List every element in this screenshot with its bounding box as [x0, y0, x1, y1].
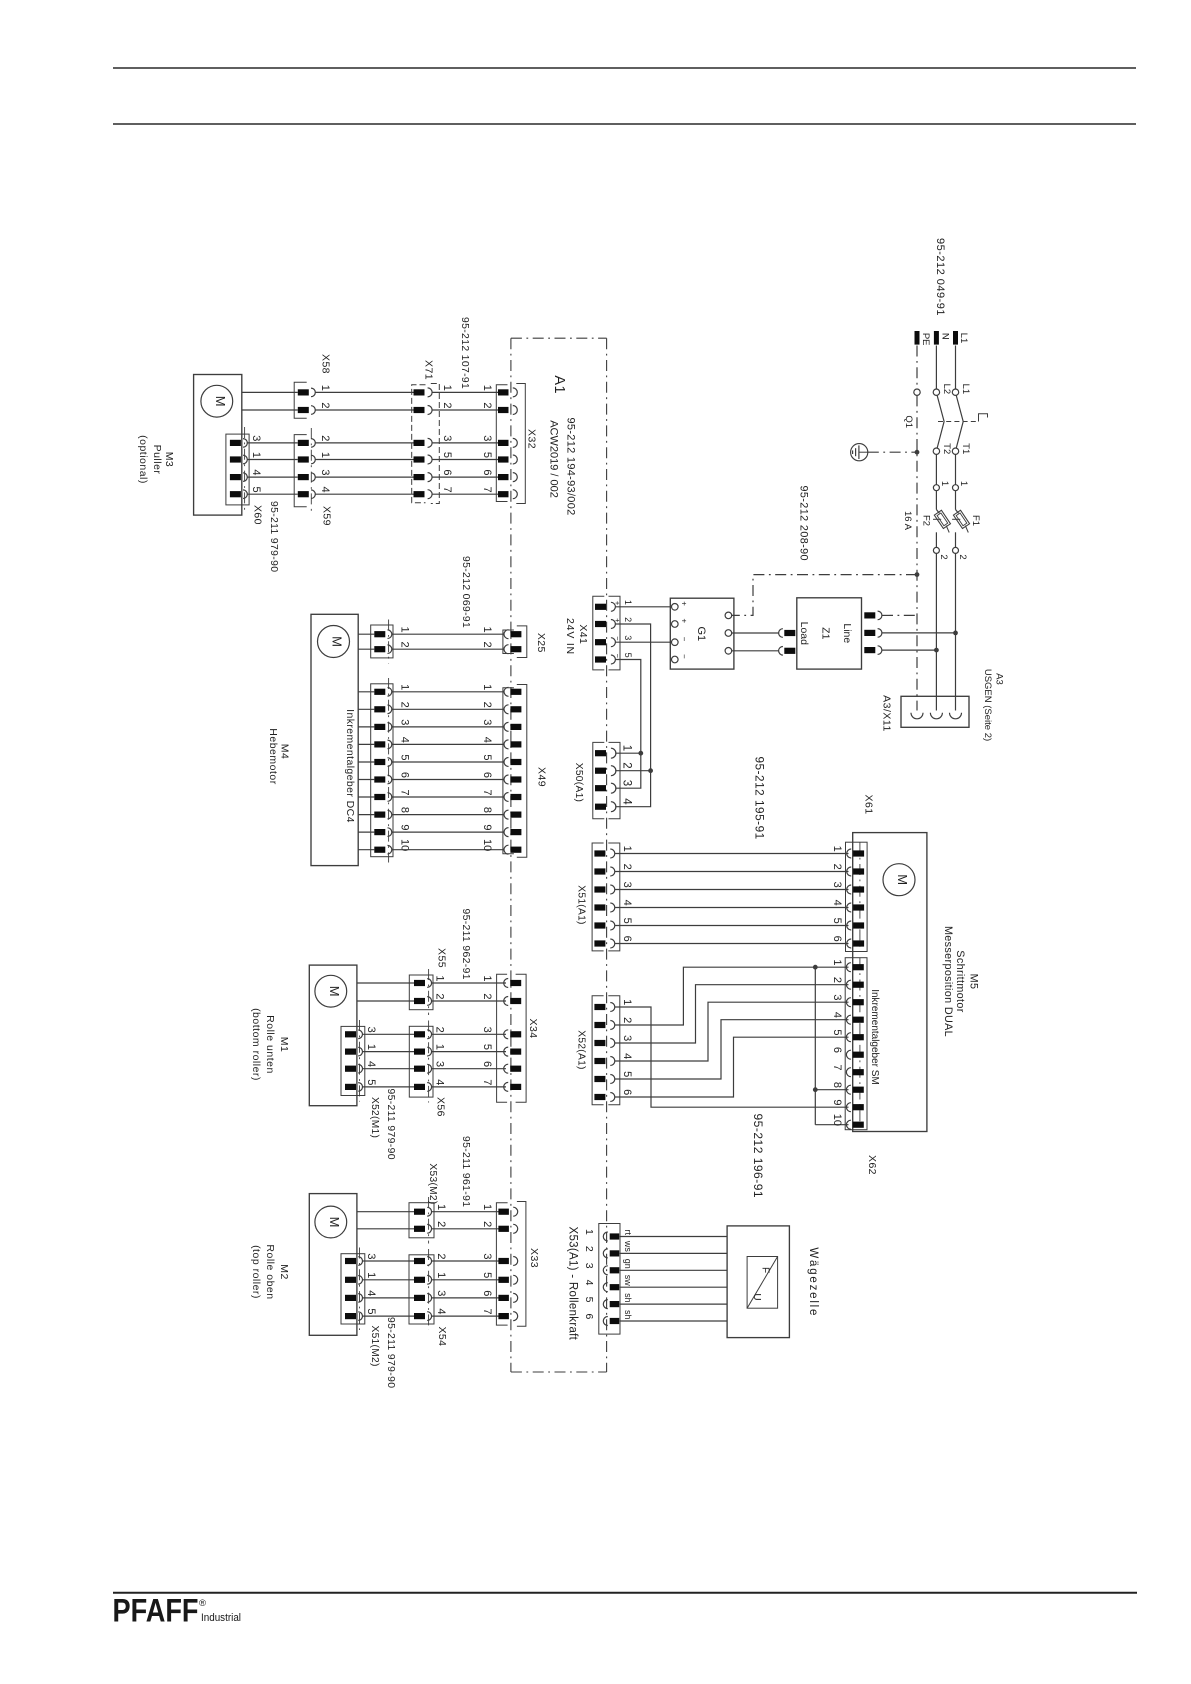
- svg-text:M: M: [895, 874, 910, 885]
- switch Q1 contact T1: [952, 448, 958, 454]
- wire ground to PE (dash-dot): [868, 451, 917, 453]
- svg-text:M: M: [330, 636, 345, 647]
- connector X53(A1): [599, 1224, 620, 1335]
- svg-text:M: M: [213, 396, 228, 407]
- motor M3 housing: [194, 375, 242, 516]
- svg-text:4: 4: [621, 1053, 633, 1059]
- svg-text:Puller: Puller: [151, 445, 163, 475]
- svg-text:4: 4: [365, 1290, 377, 1296]
- wire G1 to Z1 load bottom: [732, 650, 779, 652]
- connector X34: [497, 974, 508, 1102]
- svg-text:ACW2019 / 002: ACW2019 / 002: [548, 420, 560, 498]
- svg-text:2: 2: [319, 435, 331, 441]
- svg-text:M3: M3: [163, 452, 175, 468]
- wire X52.5 to X62.4: [615, 1020, 849, 1079]
- wire M3 lead 1: [242, 391, 298, 393]
- motor M3: [201, 385, 233, 417]
- svg-text:7: 7: [831, 1064, 843, 1070]
- svg-text:95-212 194-93/002: 95-212 194-93/002: [565, 418, 577, 516]
- svg-text:1: 1: [250, 452, 262, 458]
- svg-text:L1: L1: [958, 333, 969, 344]
- svg-text:PE: PE: [920, 333, 931, 346]
- switch Q1 linkage (dashed): [938, 421, 979, 423]
- svg-text:4: 4: [831, 1012, 843, 1018]
- svg-text:1: 1: [481, 1204, 493, 1210]
- svg-text:X50(A1): X50(A1): [573, 763, 584, 802]
- svg-text:X51(M2): X51(M2): [369, 1326, 380, 1367]
- svg-text:5: 5: [481, 754, 493, 760]
- svg-text:95-212 069-91: 95-212 069-91: [460, 556, 471, 628]
- svg-text:95-211 979-90: 95-211 979-90: [385, 1317, 396, 1388]
- svg-text:Wägezelle: Wägezelle: [807, 1247, 819, 1317]
- svg-text:X49: X49: [535, 767, 547, 787]
- svg-text:9: 9: [399, 824, 411, 830]
- Z1 line-side pin: [864, 647, 875, 653]
- svg-text:sw: sw: [623, 1275, 633, 1287]
- svg-text:2: 2: [435, 1253, 447, 1259]
- svg-text:95-212 208-90: 95-212 208-90: [798, 486, 810, 561]
- svg-text:2: 2: [583, 1246, 595, 1252]
- wire N down to A3/X11: [935, 553, 937, 710]
- junction X62.8: [813, 1087, 818, 1092]
- svg-text:N: N: [940, 333, 951, 340]
- svg-text:4: 4: [620, 798, 632, 805]
- svg-text:2: 2: [481, 702, 493, 708]
- svg-text:M5: M5: [967, 974, 979, 990]
- svg-text:3: 3: [620, 780, 632, 786]
- wire X41.2 to X50 rail: [615, 624, 650, 807]
- connector M4 plug 10-pin: [371, 684, 393, 857]
- Z1 line-side pin: [864, 612, 875, 618]
- footer rule: [113, 1592, 1137, 1594]
- svg-text:Rolle unten: Rolle unten: [264, 1015, 276, 1074]
- svg-text:95-212 196-91: 95-212 196-91: [751, 1114, 765, 1199]
- svg-text:3: 3: [441, 435, 453, 441]
- svg-text:X53(A1) - Rollenkraft: X53(A1) - Rollenkraft: [567, 1227, 579, 1341]
- svg-text:M1: M1: [278, 1037, 290, 1053]
- svg-text:9: 9: [481, 824, 493, 830]
- switch Q1 contact L2: [933, 389, 939, 395]
- wires X53(A1) to load cell: [619, 1236, 727, 1238]
- svg-text:2: 2: [621, 1017, 633, 1023]
- power supply G1: [670, 598, 734, 669]
- switch Q1 actuator hook: [979, 414, 988, 422]
- wire L1 from terminal: [955, 346, 957, 390]
- svg-text:USGEN (Seite 2): USGEN (Seite 2): [982, 669, 993, 741]
- G1 output terminal 2: [725, 630, 732, 637]
- svg-text:2: 2: [441, 402, 453, 408]
- wires X58/X59 to X71: [315, 391, 413, 393]
- connector X62: [845, 958, 867, 1130]
- wire Z1 PE to PE line (dash-dot): [882, 614, 917, 616]
- connector X52(A1): [592, 996, 604, 1105]
- svg-text:A3/X11: A3/X11: [880, 695, 892, 732]
- wire X41.1 to G1: [615, 606, 671, 608]
- wire X52.3 to X62.2: [615, 985, 849, 1043]
- svg-text:M2: M2: [278, 1264, 290, 1280]
- svg-text:T2: T2: [941, 443, 952, 454]
- svg-text:95-212 107-91: 95-212 107-91: [459, 317, 470, 389]
- G1 input terminal 4 (-): [672, 656, 679, 663]
- switch Q1 contact T2: [933, 448, 939, 454]
- svg-text:Schrittmotor: Schrittmotor: [954, 950, 966, 1012]
- svg-text:6: 6: [621, 1089, 633, 1095]
- svg-text:X59: X59: [320, 506, 332, 526]
- svg-text:+: +: [613, 601, 622, 606]
- svg-text:L2: L2: [941, 384, 952, 395]
- svg-text:Hebemotor: Hebemotor: [267, 728, 279, 784]
- svg-text:A3: A3: [994, 673, 1005, 685]
- svg-text:2: 2: [481, 993, 493, 999]
- terminal PE: [915, 331, 920, 345]
- svg-text:1: 1: [621, 999, 633, 1005]
- fuse F2 contact 2: [933, 547, 939, 553]
- svg-text:6: 6: [481, 469, 493, 475]
- svg-text:10: 10: [831, 1114, 843, 1126]
- svg-text:1: 1: [831, 846, 843, 852]
- svg-text:X25: X25: [535, 633, 547, 653]
- wires X52(M1) to X56: [363, 1033, 415, 1035]
- svg-text:−: −: [613, 636, 622, 641]
- terminal L1: [953, 331, 958, 345]
- svg-text:F1: F1: [970, 515, 981, 526]
- svg-text:1: 1: [481, 975, 493, 981]
- svg-text:M: M: [327, 1217, 342, 1228]
- connector X51(A1): [592, 843, 604, 951]
- svg-text:3: 3: [481, 719, 493, 725]
- wire X50.1: [615, 752, 641, 754]
- wire N from terminal: [935, 346, 937, 390]
- svg-text:1: 1: [831, 959, 843, 965]
- svg-text:1: 1: [435, 1272, 447, 1278]
- PFAFF Industrial logo: [113, 1593, 242, 1629]
- svg-text:8: 8: [481, 807, 493, 813]
- svg-text:5: 5: [831, 918, 843, 924]
- connector X41: [593, 596, 605, 670]
- terminal N: [934, 331, 939, 345]
- switch Q1 blade pole 1: [956, 396, 963, 448]
- svg-text:X33: X33: [528, 1248, 540, 1268]
- svg-text:1: 1: [434, 1044, 446, 1050]
- svg-text:6: 6: [481, 1290, 493, 1296]
- svg-text:2: 2: [481, 402, 493, 408]
- connector X60: [226, 434, 249, 505]
- connector X50: [593, 742, 605, 818]
- wire PE from terminal (dash-dot): [916, 346, 918, 390]
- svg-text:M4: M4: [278, 744, 290, 760]
- svg-text:2: 2: [938, 554, 949, 559]
- svg-text:3: 3: [623, 635, 633, 640]
- svg-text:2: 2: [399, 702, 411, 708]
- svg-text:4: 4: [365, 1061, 377, 1067]
- svg-text:3: 3: [621, 1035, 633, 1041]
- svg-text:A1: A1: [551, 375, 567, 394]
- svg-text:5: 5: [583, 1297, 595, 1303]
- svg-text:3: 3: [365, 1027, 377, 1033]
- svg-text:6: 6: [583, 1313, 595, 1319]
- wires M4 leads: [358, 633, 374, 635]
- svg-text:Line: Line: [841, 623, 853, 643]
- svg-text:5: 5: [250, 487, 262, 493]
- wires M4 encoder leads: [358, 691, 374, 693]
- svg-text:1: 1: [621, 846, 633, 852]
- svg-text:1: 1: [399, 684, 411, 690]
- svg-text:9: 9: [831, 1099, 843, 1105]
- switch Q1 blade pole 2: [937, 396, 944, 448]
- svg-text:Rolle oben: Rolle oben: [264, 1244, 276, 1299]
- svg-text:3: 3: [434, 1061, 446, 1067]
- controller A1 boundary (dash-dot box): [510, 338, 512, 1372]
- svg-text:U: U: [751, 1293, 762, 1300]
- header rule bottom: [113, 123, 1136, 125]
- svg-text:3: 3: [319, 469, 331, 475]
- wires X55/X56 to X34: [432, 982, 506, 984]
- wires M4 plug to X25: [392, 633, 505, 635]
- svg-text:5: 5: [365, 1308, 377, 1314]
- svg-text:1: 1: [481, 627, 493, 633]
- svg-text:rt: rt: [623, 1230, 633, 1236]
- svg-text:X32: X32: [526, 429, 538, 449]
- fuse F2 contact 1: [933, 485, 939, 491]
- svg-text:Q1: Q1: [903, 415, 914, 428]
- svg-text:2: 2: [481, 642, 493, 648]
- Z1 load-side receptacle: [779, 647, 783, 656]
- svg-text:T1: T1: [960, 443, 971, 454]
- svg-text:95-211 961-91: 95-211 961-91: [460, 1136, 471, 1207]
- svg-text:6: 6: [441, 469, 453, 475]
- svg-text:(optional): (optional): [137, 435, 149, 484]
- svg-text:1: 1: [939, 481, 950, 486]
- connector X55: [409, 975, 433, 1010]
- svg-text:2: 2: [434, 993, 446, 999]
- svg-text:3: 3: [250, 435, 262, 441]
- svg-text:6: 6: [481, 1061, 493, 1067]
- connector X54: [409, 1255, 434, 1324]
- svg-text:4: 4: [583, 1280, 595, 1286]
- junction N/Z1: [934, 648, 939, 653]
- svg-text:sh: sh: [623, 1310, 633, 1320]
- wires M4 plug to X49: [392, 691, 505, 693]
- switch Q1 contact L1: [952, 389, 958, 395]
- svg-text:5: 5: [481, 1044, 493, 1050]
- connector X49: [503, 688, 514, 854]
- G1 input terminal 1 (+): [672, 604, 679, 611]
- svg-text:gn: gn: [623, 1259, 633, 1269]
- svg-text:(bottom roller): (bottom roller): [250, 1008, 262, 1081]
- svg-text:4: 4: [399, 737, 411, 743]
- svg-text:3: 3: [831, 994, 843, 1000]
- svg-text:10: 10: [481, 839, 493, 851]
- load cell Waegezelle: [727, 1226, 789, 1338]
- junction X62.1: [813, 965, 818, 970]
- svg-text:3: 3: [365, 1253, 377, 1259]
- wire X52.4 to X62.3: [615, 1002, 849, 1061]
- svg-text:Z1: Z1: [819, 627, 831, 639]
- motor M1 housing: [309, 965, 357, 1106]
- connector X25: [503, 630, 514, 654]
- connector X33: [496, 1203, 507, 1325]
- G1 input terminal 2 (+): [672, 621, 679, 628]
- wires X71 to X32: [432, 391, 498, 393]
- svg-text:3: 3: [481, 1027, 493, 1033]
- svg-text:3: 3: [481, 435, 493, 441]
- G1 output terminal 1: [725, 612, 732, 619]
- svg-text:+: +: [613, 618, 622, 623]
- svg-text:7: 7: [481, 789, 493, 795]
- svg-text:M: M: [327, 986, 342, 997]
- svg-text:5: 5: [441, 452, 453, 458]
- svg-text:2: 2: [831, 977, 843, 983]
- svg-text:G1: G1: [695, 626, 707, 641]
- connector X61: [846, 842, 868, 951]
- svg-text:−: −: [680, 637, 689, 642]
- wire PE continues (dash-dot): [916, 395, 918, 710]
- connector X59: [294, 435, 307, 507]
- svg-text:−: −: [680, 654, 689, 659]
- svg-text:Messerposition DUAL: Messerposition DUAL: [942, 926, 954, 1037]
- junction L1/Z1: [953, 631, 958, 636]
- svg-text:F: F: [760, 1267, 771, 1273]
- wires X60 to X59: [247, 442, 297, 444]
- svg-text:sh: sh: [623, 1293, 633, 1303]
- svg-text:1: 1: [399, 627, 411, 633]
- svg-text:2: 2: [481, 1221, 493, 1227]
- motor M4: [318, 626, 350, 658]
- wires M1 leads: [357, 982, 414, 984]
- svg-text:4: 4: [831, 900, 843, 906]
- fuse F1 contact 2: [953, 547, 959, 553]
- G1 output terminal 3: [725, 648, 732, 655]
- svg-text:+: +: [680, 618, 689, 623]
- wire Z1 line to L1: [882, 632, 956, 634]
- svg-text:X61: X61: [862, 795, 874, 815]
- svg-text:6: 6: [481, 772, 493, 778]
- svg-text:16 A: 16 A: [902, 511, 913, 531]
- svg-text:PFAFF: PFAFF: [113, 1593, 199, 1629]
- svg-text:1: 1: [319, 452, 331, 458]
- G1 input terminal 3 (-): [672, 639, 679, 646]
- svg-text:5: 5: [623, 653, 633, 658]
- wire L1 to fuse contact: [955, 454, 957, 484]
- svg-text:3: 3: [399, 719, 411, 725]
- svg-text:1: 1: [481, 385, 493, 391]
- svg-text:7: 7: [399, 789, 411, 795]
- svg-text:F2: F2: [921, 515, 932, 526]
- svg-text:2: 2: [435, 1221, 447, 1227]
- wire M3 lead 2: [242, 409, 298, 411]
- fuse F1: [955, 491, 957, 510]
- svg-text:ws: ws: [623, 1240, 633, 1252]
- motor M1: [315, 975, 347, 1007]
- connector X51(M2): [341, 1254, 365, 1324]
- svg-text:95-211 962-91: 95-211 962-91: [460, 909, 471, 980]
- svg-text:2: 2: [831, 864, 843, 870]
- svg-text:2: 2: [623, 617, 633, 622]
- connector M4 plug 2-pin: [371, 625, 393, 658]
- line filter Z1: [797, 598, 862, 669]
- ground symbol: [851, 444, 868, 461]
- svg-text:6: 6: [831, 1047, 843, 1053]
- svg-text:1: 1: [958, 481, 969, 486]
- motor M2 housing: [309, 1194, 357, 1336]
- Z1 load-side receptacle: [779, 629, 783, 638]
- svg-text:4: 4: [319, 487, 331, 493]
- motor M5: [883, 864, 915, 896]
- wire X50.2: [615, 770, 650, 772]
- svg-text:7: 7: [481, 1079, 493, 1085]
- wire N to fuse contact: [935, 454, 937, 484]
- svg-text:1: 1: [365, 1044, 377, 1050]
- wire X52.1 to X62.9: [615, 1007, 849, 1107]
- motor M5 housing: [853, 833, 927, 1132]
- svg-text:Load: Load: [798, 622, 810, 646]
- fuse F1 contact 1: [953, 485, 959, 491]
- wire X41.5 to X50 rail: [615, 660, 641, 789]
- bridge X62 pins 1-8-10: [814, 967, 816, 1124]
- svg-text:Industrial: Industrial: [201, 1612, 241, 1624]
- svg-text:X52(M1): X52(M1): [369, 1097, 380, 1138]
- connector X53(M2): [409, 1203, 434, 1238]
- wires X53(M2)/X54 to X33: [432, 1211, 500, 1213]
- svg-text:+: +: [680, 601, 689, 606]
- svg-text:3: 3: [435, 1290, 447, 1296]
- svg-text:8: 8: [831, 1082, 843, 1088]
- svg-text:7: 7: [441, 487, 453, 493]
- svg-text:X55: X55: [435, 948, 447, 968]
- junction X50.2 rail: [648, 768, 653, 773]
- svg-text:4: 4: [434, 1079, 446, 1085]
- svg-text:®: ®: [199, 1598, 206, 1609]
- svg-text:2: 2: [319, 402, 331, 408]
- motor M2: [315, 1206, 347, 1238]
- wires X51(M2) to X54: [363, 1260, 415, 1262]
- svg-text:3: 3: [621, 882, 633, 888]
- svg-text:1: 1: [319, 385, 331, 391]
- svg-text:X58: X58: [320, 354, 332, 374]
- wire PE branch to G1 (dash-dot): [732, 575, 917, 616]
- svg-text:5: 5: [481, 452, 493, 458]
- connector X32: [496, 385, 507, 502]
- wire L1 down to A3/X11: [955, 553, 957, 710]
- svg-text:5: 5: [481, 1272, 493, 1278]
- svg-text:4: 4: [250, 469, 262, 475]
- junction X50.1 rail: [638, 751, 643, 756]
- svg-text:X62: X62: [866, 1155, 878, 1175]
- svg-text:L1: L1: [960, 384, 971, 395]
- connector X71 (dashed housing): [412, 385, 426, 503]
- svg-text:2: 2: [399, 642, 411, 648]
- svg-text:5: 5: [621, 1071, 633, 1077]
- svg-text:4: 4: [621, 900, 633, 906]
- motor M4 housing: [311, 614, 358, 865]
- svg-text:Inkrementalgeber SM: Inkrementalgeber SM: [869, 989, 880, 1085]
- svg-text:3: 3: [831, 882, 843, 888]
- svg-text:1: 1: [481, 684, 493, 690]
- svg-text:2: 2: [621, 864, 633, 870]
- svg-text:X56: X56: [435, 1097, 447, 1117]
- svg-text:24V IN: 24V IN: [564, 618, 576, 655]
- svg-text:2: 2: [434, 1027, 446, 1033]
- svg-text:3: 3: [481, 1253, 493, 1259]
- svg-text:5: 5: [365, 1079, 377, 1085]
- contact on PE line: [914, 389, 920, 395]
- svg-text:X41: X41: [577, 624, 589, 644]
- junction PE/ground: [915, 450, 920, 455]
- svg-text:7: 7: [481, 487, 493, 493]
- connector X56: [409, 1026, 433, 1097]
- svg-text:1: 1: [365, 1272, 377, 1278]
- svg-text:1: 1: [623, 600, 633, 605]
